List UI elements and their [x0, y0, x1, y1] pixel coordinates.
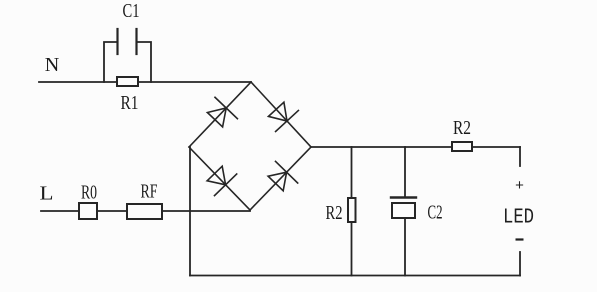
wire R2 shunt bottom lead [351, 222, 353, 276]
svg-text:LED: LED [503, 207, 534, 230]
wire bridge upper-left edge [189, 82, 251, 147]
resistor R1 [117, 77, 138, 86]
svg-text:RF: RF [141, 181, 158, 203]
wire L line [41, 210, 250, 212]
diode D3 [207, 166, 237, 195]
svg-text:R2: R2 [326, 202, 343, 224]
svg-text:R2: R2 [453, 117, 471, 139]
diode D2 [269, 102, 299, 131]
wire C1 right bracket [137, 42, 151, 82]
wire C2 bottom lead [404, 218, 406, 276]
wire bridge lower-left edge [189, 147, 250, 210]
wire left vertical (bridge left node to bottom rail) [189, 147, 191, 276]
label minus [516, 238, 524, 240]
wire N line [39, 81, 251, 83]
wire LED bottom stub [519, 252, 521, 276]
wire C2 top lead [404, 147, 406, 196]
wire LED top stub [519, 147, 521, 166]
resistor R2 series [452, 142, 472, 151]
capacitor C2 top plate [391, 196, 416, 198]
svg-text:C2: C2 [428, 202, 443, 224]
svg-text:+: + [515, 178, 524, 195]
diode D1 [207, 97, 237, 127]
capacitor C2 body [392, 203, 415, 218]
wire bridge lower-right edge [250, 147, 311, 210]
wire C1 left bracket [104, 42, 117, 82]
wire R2 to right corner [472, 146, 520, 148]
svg-text:R0: R0 [81, 182, 97, 204]
resistor R0 [79, 203, 97, 219]
capacitor C1 [118, 29, 137, 54]
wire bottom rail [190, 275, 520, 277]
resistor R2 shunt [348, 198, 356, 222]
wire bridge upper-right edge [251, 82, 311, 147]
diode D4 [268, 161, 298, 190]
wire DC+ top line [311, 146, 452, 148]
wire R2 shunt top lead [351, 147, 353, 198]
svg-text:R1: R1 [121, 92, 139, 114]
svg-text:C1: C1 [123, 0, 140, 22]
svg-text:L: L [40, 183, 54, 205]
svg-text:N: N [45, 54, 60, 76]
resistor RF [127, 204, 162, 219]
